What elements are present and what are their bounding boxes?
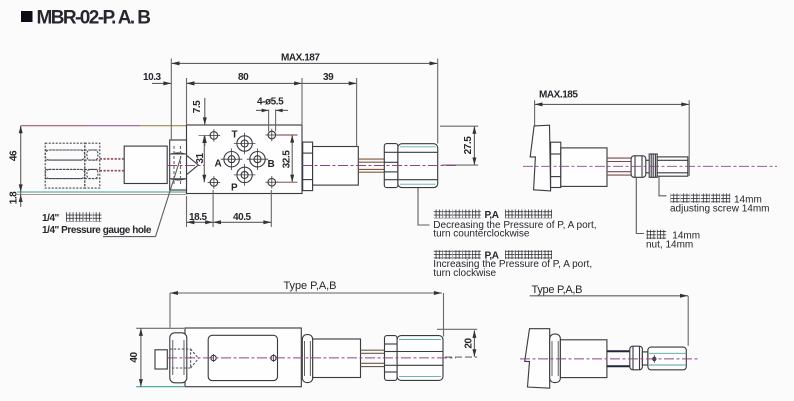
dimension 27.5 xyxy=(440,126,478,165)
screw end symbol xyxy=(652,355,656,363)
centerline top-right view xyxy=(523,165,777,167)
left plug small rect xyxy=(155,350,167,369)
valve body rect xyxy=(187,125,303,194)
capsule hex 3 xyxy=(550,334,561,383)
dimension 40 xyxy=(129,328,184,386)
port P xyxy=(234,164,256,186)
rod bottom view xyxy=(361,350,385,366)
svg-text:nut, 14mm: nut, 14mm xyxy=(646,240,693,251)
hex nut side xyxy=(551,142,561,187)
dimension 4-o5.5 xyxy=(256,97,288,132)
threaded rod (hidden, dashed) xyxy=(100,159,124,171)
left capsule hex xyxy=(170,333,187,383)
svg-text:1/4" Pressure gauge hole: 1/4" Pressure gauge hole xyxy=(42,225,152,236)
hex screw assembly bottom view narrow xyxy=(385,336,398,381)
mounting plane teal line xyxy=(17,191,187,193)
side plate 2 xyxy=(525,329,550,389)
leader pressure gauge hole xyxy=(103,236,156,238)
dimension 7.5 xyxy=(192,98,210,146)
extension line cylinder right top xyxy=(356,78,358,147)
svg-text:40.5: 40.5 xyxy=(233,212,252,223)
svg-text:4-ø5.5: 4-ø5.5 xyxy=(257,97,284,108)
svg-text:20: 20 xyxy=(464,338,475,349)
dimension 46 xyxy=(9,126,23,207)
svg-text:MAX.187: MAX.187 xyxy=(281,53,320,64)
neck xyxy=(646,160,649,173)
gauge hole cone xyxy=(187,156,198,175)
extension line body left top xyxy=(186,78,188,125)
lower 1.8 line xyxy=(17,193,187,195)
Type P,A,B label 2 xyxy=(530,284,689,346)
right cylinder xyxy=(313,147,359,186)
svg-text:27.5: 27.5 xyxy=(463,136,474,155)
hex screw assembly bottom view wide xyxy=(397,336,443,381)
svg-text:MBR-02-P. A. B: MBR-02-P. A. B xyxy=(37,8,152,29)
annotation increasing pressure xyxy=(433,250,592,279)
shaft thick lines xyxy=(607,351,630,366)
port B xyxy=(247,148,269,170)
svg-text:adjusting screw 14mm: adjusting screw 14mm xyxy=(670,204,769,215)
dimension 80 xyxy=(187,72,303,85)
centerline bottom-left view xyxy=(167,357,456,359)
svg-text:31: 31 xyxy=(195,153,206,164)
inner plate xyxy=(208,335,277,380)
dimension MAX.185 xyxy=(535,90,690,107)
svg-text:39: 39 xyxy=(323,72,334,83)
body bottom view xyxy=(185,328,301,387)
svg-text:80: 80 xyxy=(238,72,249,83)
svg-text:T: T xyxy=(232,130,238,141)
svg-text:turn counterclockwise: turn counterclockwise xyxy=(433,229,530,240)
adjusting screw hex (hidden, dashed) xyxy=(45,143,85,188)
hidden gauge box xyxy=(170,349,199,368)
mounting hole top-left xyxy=(208,129,221,142)
nut 14mm xyxy=(631,156,646,178)
svg-text:32.5: 32.5 xyxy=(282,150,293,169)
centerline bottom-right view xyxy=(520,358,698,360)
right hex adjusting assembly wide segment xyxy=(398,144,438,188)
dimension 1.8 xyxy=(9,191,23,204)
svg-text:Type P,A,B: Type P,A,B xyxy=(284,280,337,292)
cylinder xyxy=(561,148,607,187)
mounting hole bottom-left xyxy=(208,176,221,189)
right hex adjusting assembly narrow segment xyxy=(384,144,398,188)
extension line right of MAX.187 xyxy=(437,59,439,144)
threaded rod xyxy=(607,158,631,175)
mounting hole top-right xyxy=(266,129,279,142)
striped washer xyxy=(649,154,657,177)
cylinder bottom view xyxy=(313,339,361,378)
screw 3 xyxy=(648,347,686,370)
block xyxy=(124,146,167,183)
centerline main view xyxy=(167,165,204,167)
leader to decrease/increase text xyxy=(418,188,430,225)
svg-text:1.8: 1.8 xyxy=(9,191,20,204)
annotation 1/4 pressure gauge hole xyxy=(42,212,152,236)
title bullet square xyxy=(21,11,33,22)
annotation nut 14mm xyxy=(646,230,700,251)
top plane line xyxy=(21,125,90,127)
screw right xyxy=(271,354,276,362)
extension line body right top xyxy=(301,78,303,125)
cylinder 3 xyxy=(560,340,607,378)
dimension 32.5 xyxy=(277,135,298,182)
adjusting screw xyxy=(657,157,688,176)
port A xyxy=(221,148,243,170)
svg-text:10.3: 10.3 xyxy=(143,72,162,83)
annotation adjusting screw 14mm xyxy=(670,194,769,215)
dimension 31 xyxy=(195,135,206,182)
dimension 20 xyxy=(437,329,477,357)
annotation decreasing pressure xyxy=(433,210,596,240)
svg-text:7.5: 7.5 xyxy=(192,100,203,113)
Type P,A,B label and line xyxy=(170,280,444,337)
svg-text:A: A xyxy=(215,159,222,170)
hex nut at body left xyxy=(170,140,187,190)
svg-text:Type P,A,B: Type P,A,B xyxy=(532,284,583,296)
dimension 40.5 xyxy=(213,190,271,227)
svg-text:MAX.185: MAX.185 xyxy=(539,90,578,101)
dimension MAX.187 xyxy=(171,53,437,66)
svg-text:46: 46 xyxy=(9,150,20,161)
capsule hex 2 xyxy=(302,335,312,383)
svg-text:turn clockwise: turn clockwise xyxy=(433,268,496,279)
spacer 3 xyxy=(642,352,648,365)
svg-text:B: B xyxy=(268,159,275,170)
leader adjusting screw xyxy=(659,176,667,196)
svg-text:1/4": 1/4" xyxy=(42,213,60,224)
right locknut on body xyxy=(303,142,313,191)
dimension 18.5 xyxy=(187,190,214,227)
extension line left of MAX.187 xyxy=(170,59,172,141)
mounting hole bottom-right xyxy=(266,176,279,189)
dimension 10.3 xyxy=(143,72,199,85)
dimension 39 xyxy=(302,72,357,85)
svg-text:40: 40 xyxy=(129,352,140,363)
leader nut 14mm xyxy=(636,177,644,233)
nut 3 xyxy=(630,346,643,370)
right threaded rod xyxy=(358,159,384,172)
collar (hidden, dashed) xyxy=(85,143,100,188)
svg-text:P: P xyxy=(231,183,238,194)
screw left xyxy=(211,354,216,362)
port T xyxy=(234,133,256,155)
svg-text:18.5: 18.5 xyxy=(189,212,208,223)
side plate xyxy=(530,125,550,191)
